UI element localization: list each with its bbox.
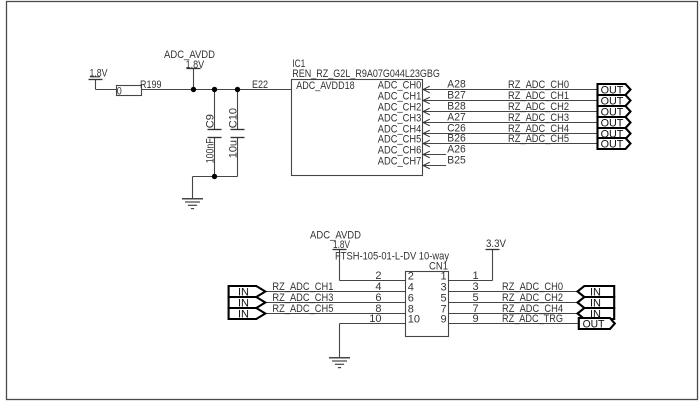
svg-text:RZ_ADC_CH5: RZ_ADC_CH5 (508, 133, 569, 145)
svg-text:R199: R199 (140, 79, 162, 91)
svg-text:1.8V: 1.8V (186, 59, 205, 71)
svg-text:RZ_ADC_TRG: RZ_ADC_TRG (502, 313, 563, 325)
svg-text:ADC_CH7: ADC_CH7 (378, 156, 422, 168)
svg-text:10: 10 (408, 313, 420, 325)
svg-text:OUT: OUT (601, 139, 624, 151)
svg-text:1.8V: 1.8V (90, 67, 109, 79)
svg-text:C9: C9 (204, 114, 216, 128)
svg-text:IN: IN (238, 309, 249, 321)
svg-text:0: 0 (117, 86, 122, 98)
svg-text:OUT: OUT (583, 319, 605, 331)
svg-text:B25: B25 (447, 155, 465, 167)
svg-text:100nF: 100nF (204, 138, 216, 163)
svg-text:1.8V: 1.8V (333, 239, 350, 251)
svg-text:E22: E22 (252, 79, 268, 91)
svg-text:9: 9 (472, 313, 478, 325)
svg-text:9: 9 (440, 313, 446, 325)
svg-text:C10: C10 (227, 108, 239, 128)
svg-text:3.3V: 3.3V (486, 238, 507, 250)
svg-text:REN_RZ_G2L_R9A07G044L23GBG: REN_RZ_G2L_R9A07G044L23GBG (292, 68, 440, 80)
svg-text:RZ_ADC_CH5: RZ_ADC_CH5 (272, 303, 333, 315)
svg-text:ADC_AVDD18: ADC_AVDD18 (296, 80, 354, 92)
svg-text:10: 10 (369, 313, 381, 325)
svg-text:10u: 10u (227, 140, 239, 158)
